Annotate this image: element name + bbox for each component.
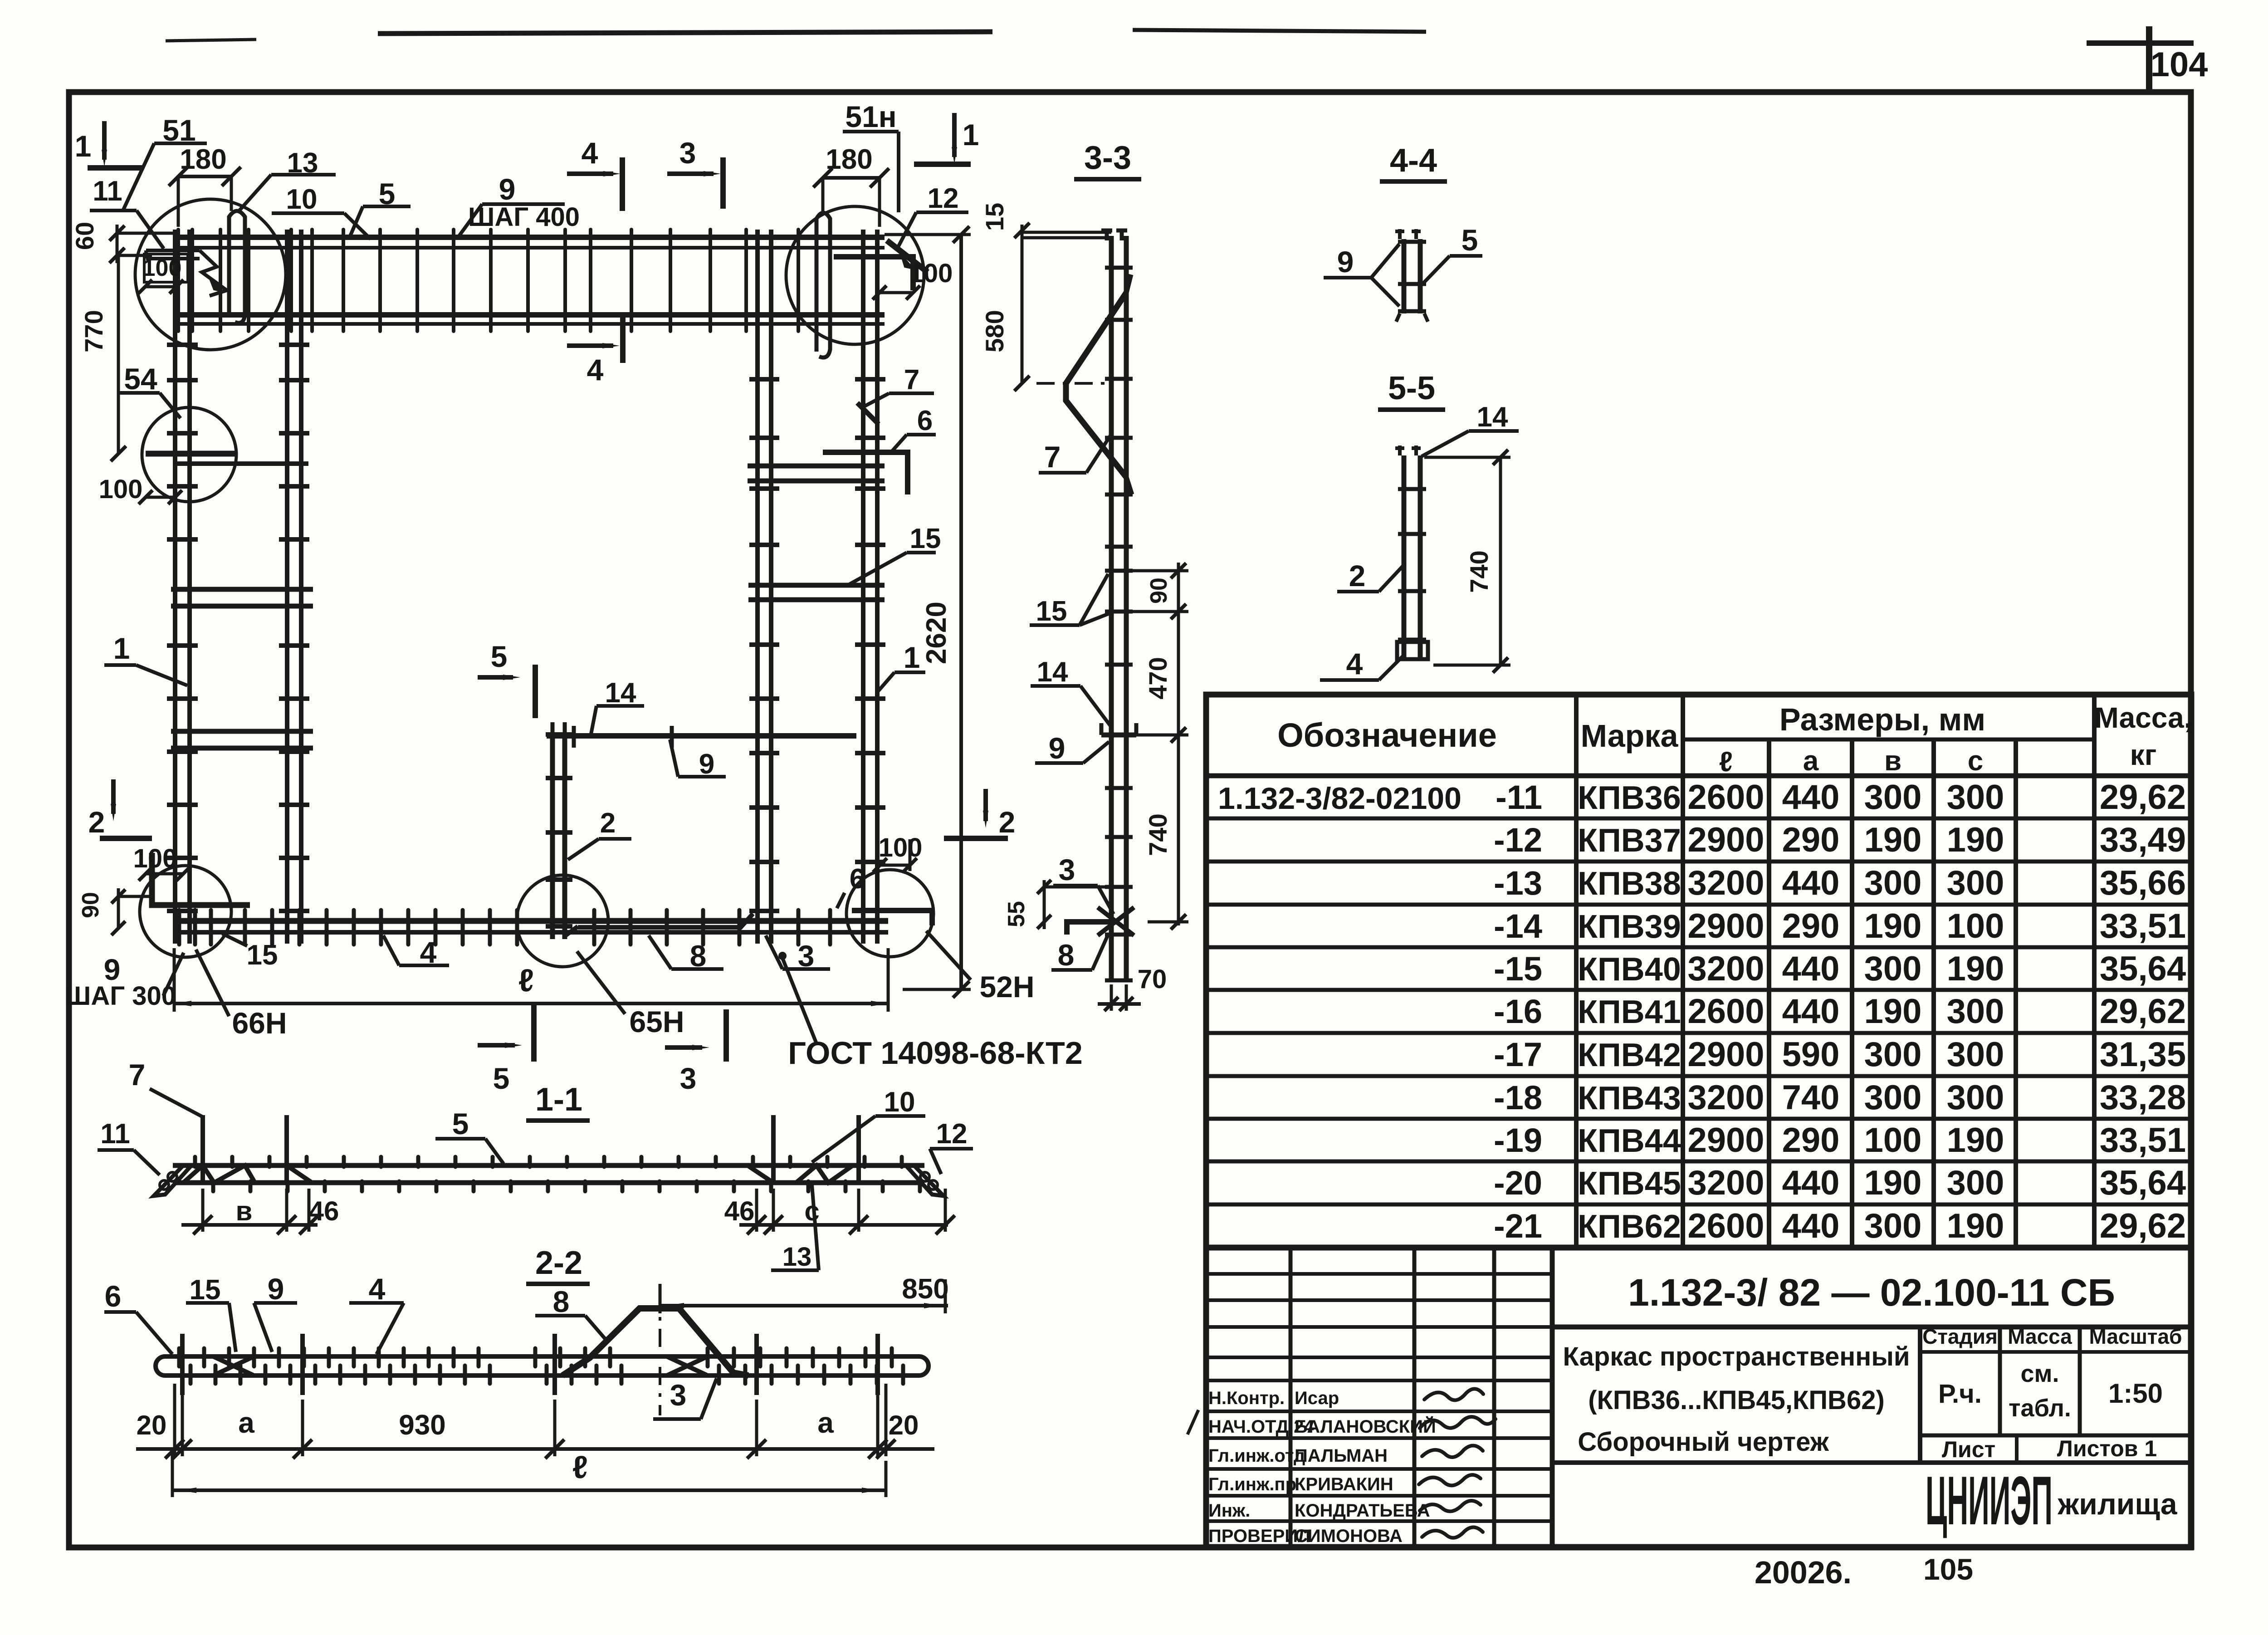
svg-text:КПВ39: КПВ39	[1578, 909, 1681, 945]
svg-text:2600: 2600	[1687, 992, 1764, 1031]
svg-text:1: 1	[113, 631, 130, 665]
svg-text:300: 300	[1864, 950, 1922, 988]
svg-text:8: 8	[1058, 938, 1075, 972]
svg-text:440: 440	[1782, 992, 1840, 1031]
top band chords (bars 5/9)	[176, 235, 885, 240]
svg-text:190: 190	[1947, 821, 2004, 859]
svg-text:2900: 2900	[1687, 821, 1764, 859]
svg-text:66Н: 66Н	[232, 1006, 287, 1040]
svg-text:КПВ38: КПВ38	[1578, 866, 1681, 902]
svg-text:5: 5	[1461, 223, 1478, 257]
title block outer frame	[1206, 1248, 2191, 1547]
detail circle 51 top-left	[135, 199, 286, 350]
svg-text:ℓ: ℓ	[1719, 746, 1733, 778]
svg-text:4: 4	[369, 1272, 386, 1306]
svg-text:2: 2	[600, 808, 616, 839]
section 1-1 brace triangles left	[183, 1165, 255, 1183]
svg-text:2: 2	[999, 805, 1016, 839]
svg-text:4: 4	[1346, 647, 1363, 680]
svg-text:Исар: Исар	[1295, 1388, 1339, 1408]
svg-text:Сборочный чертеж: Сборочный чертеж	[1578, 1427, 1829, 1457]
svg-text:31,35: 31,35	[2100, 1035, 2186, 1074]
svg-text:580: 580	[980, 310, 1009, 352]
pin bar 13 in circle 51	[229, 211, 245, 323]
svg-text:300: 300	[1864, 864, 1922, 902]
svg-text:Гл.инж.отд: Гл.инж.отд	[1208, 1446, 1305, 1466]
svg-text:ШАГ 400: ШАГ 400	[468, 202, 580, 232]
right column small zigzag 7	[857, 403, 879, 424]
right ladder chords (bar 1)	[755, 230, 760, 944]
section 3-3 rungs	[1105, 266, 1133, 270]
svg-text:1: 1	[904, 641, 920, 674]
svg-text:-16: -16	[1494, 993, 1542, 1030]
svg-text:Листов 1: Листов 1	[2057, 1436, 2157, 1461]
svg-text:Р.ч.: Р.ч.	[1938, 1379, 1982, 1409]
svg-text:4: 4	[582, 136, 598, 170]
svg-text:см.: см.	[2021, 1360, 2059, 1387]
svg-text:33,28: 33,28	[2100, 1078, 2186, 1117]
svg-text:-20: -20	[1494, 1164, 1542, 1202]
svg-text:35,66: 35,66	[2100, 864, 2186, 902]
svg-text:Инж.: Инж.	[1208, 1501, 1250, 1521]
svg-text:46: 46	[724, 1196, 755, 1226]
svg-text:14: 14	[1477, 401, 1508, 433]
detail circle 54 mid-left	[142, 407, 236, 502]
svg-text:20: 20	[137, 1410, 167, 1440]
svg-text:2: 2	[1349, 559, 1366, 592]
svg-text:740: 740	[1465, 550, 1493, 592]
section 1-1 cross ticks	[193, 1157, 197, 1167]
svg-text:-17: -17	[1494, 1036, 1542, 1073]
svg-text:КПВ37: КПВ37	[1578, 822, 1681, 859]
svg-text:-14: -14	[1494, 907, 1542, 945]
section 1-1 posts	[200, 1115, 205, 1185]
svg-text:(КПВ36...КПВ45,КПВ62): (КПВ36...КПВ45,КПВ62)	[1588, 1385, 1885, 1415]
right ladder long bars 15	[748, 464, 885, 469]
section 2-2 cross ticks	[177, 1348, 181, 1366]
svg-text:29,62: 29,62	[2100, 992, 2186, 1031]
svg-text:190: 190	[1947, 1207, 2004, 1245]
svg-text:1:50: 1:50	[2108, 1378, 2163, 1409]
svg-text:440: 440	[1782, 1207, 1840, 1245]
section 3-3 zigzag bar 7	[1066, 293, 1126, 477]
svg-text:2900: 2900	[1687, 907, 1764, 945]
svg-text:БАЛАНОВСКИЙ: БАЛАНОВСКИЙ	[1295, 1416, 1436, 1437]
svg-text:104: 104	[2151, 45, 2208, 84]
svg-text:ПАЛЬМАН: ПАЛЬМАН	[1295, 1446, 1388, 1466]
svg-text:9: 9	[268, 1272, 284, 1306]
svg-text:a: a	[238, 1406, 254, 1439]
svg-text:6: 6	[105, 1279, 122, 1313]
svg-text:770: 770	[79, 310, 108, 352]
table row lines	[1206, 817, 2191, 821]
svg-text:100: 100	[909, 259, 953, 288]
section 1-1 bar 5 body	[173, 1163, 924, 1168]
svg-text:КПВ40: КПВ40	[1578, 951, 1681, 988]
svg-text:10: 10	[884, 1087, 915, 1118]
weld flag 11 in circle 51	[146, 250, 200, 259]
stadiya massa masshtab header	[1918, 1327, 1922, 1463]
svg-text:5-5: 5-5	[1388, 370, 1435, 406]
section 2-2 trapezoid bar 8	[562, 1308, 748, 1376]
svg-text:-21: -21	[1494, 1207, 1542, 1245]
svg-text:2620: 2620	[921, 602, 952, 664]
detail circle 65Н bottom-middle	[517, 875, 608, 967]
svg-text:15: 15	[190, 1274, 221, 1306]
svg-text:51н: 51н	[845, 100, 896, 133]
svg-text:100: 100	[133, 844, 177, 873]
svg-text:-15: -15	[1494, 950, 1542, 988]
title block vertical dividers	[1550, 1248, 1555, 1547]
svg-text:190: 190	[1947, 950, 2004, 988]
svg-text:Масса: Масса	[2008, 1325, 2072, 1348]
svg-text:190: 190	[1864, 1164, 1922, 1202]
svg-text:440: 440	[1782, 1164, 1840, 1202]
svg-text:7: 7	[1044, 440, 1061, 474]
svg-text:ℓ: ℓ	[572, 1449, 588, 1485]
svg-text:2-2: 2-2	[535, 1245, 582, 1281]
svg-text:4: 4	[587, 353, 604, 387]
svg-text:54: 54	[124, 362, 157, 396]
svg-text:5: 5	[491, 640, 508, 673]
section 1-1 right weld flag 12	[906, 1165, 943, 1196]
svg-text:35,64: 35,64	[2100, 1164, 2186, 1202]
svg-text:15: 15	[980, 203, 1009, 231]
svg-text:14: 14	[1037, 656, 1068, 688]
svg-text:10: 10	[286, 184, 318, 215]
svg-text:-11: -11	[1496, 778, 1542, 816]
svg-text:740: 740	[1782, 1078, 1840, 1117]
bottom-left corner hook bar 66Н	[152, 853, 250, 905]
svg-text:850: 850	[902, 1273, 948, 1305]
svg-text:-19: -19	[1494, 1121, 1542, 1159]
svg-text:ℓ: ℓ	[518, 963, 534, 998]
detail circle 66Н bottom-left	[140, 866, 231, 957]
svg-text:КРИВАКИН: КРИВАКИН	[1295, 1474, 1393, 1494]
svg-text:3-3: 3-3	[1084, 140, 1131, 176]
svg-text:Масса,: Масса,	[2094, 701, 2192, 734]
svg-text:3200: 3200	[1687, 1164, 1764, 1202]
right hook bar 6 with 100 hook	[823, 452, 908, 494]
section 1-1 brace triangles right	[796, 1165, 853, 1183]
left ladder chords (bar 1)	[173, 230, 177, 944]
table frame	[1206, 695, 2191, 1248]
svg-text:12: 12	[928, 183, 959, 214]
page number 104 box	[2087, 40, 2194, 46]
svg-text:300: 300	[1864, 1207, 1922, 1245]
svg-text:740: 740	[1144, 813, 1172, 856]
svg-text:c: c	[1968, 745, 1983, 777]
pin bar in circle 51н	[816, 213, 830, 357]
svg-text:190: 190	[1864, 907, 1922, 945]
svg-text:3: 3	[670, 1378, 687, 1412]
svg-text:1: 1	[963, 118, 979, 152]
svg-text:3200: 3200	[1687, 950, 1764, 988]
svg-text:15: 15	[1036, 596, 1067, 627]
svg-text:ЦНИИЭП: ЦНИИЭП	[1926, 1462, 2053, 1539]
svg-text:65Н: 65Н	[629, 1005, 684, 1038]
svg-text:9: 9	[1337, 245, 1354, 279]
section 3-3 bottom hook bar 8 and cross	[1067, 922, 1118, 935]
svg-text:35,64: 35,64	[2100, 950, 2186, 988]
svg-text:1.132-3/ 82 — 02.100-11 СБ: 1.132-3/ 82 — 02.100-11 СБ	[1628, 1271, 2115, 1314]
detail circle 51н top-right	[786, 206, 924, 344]
svg-text:СИМОНОВА: СИМОНОВА	[1295, 1526, 1403, 1546]
top band ties шаг 400	[176, 230, 180, 331]
left ladder rungs	[167, 343, 198, 347]
signature grid horizontal lines	[1206, 1272, 1552, 1276]
svg-text:300: 300	[1864, 1035, 1922, 1074]
svg-text:1-1: 1-1	[535, 1082, 582, 1118]
svg-text:3: 3	[679, 136, 696, 170]
svg-text:190: 190	[1864, 992, 1922, 1031]
svg-text:11: 11	[100, 1118, 130, 1150]
svg-text:8: 8	[553, 1285, 570, 1318]
bottom band ties шаг 300	[177, 910, 181, 945]
svg-text:300: 300	[1947, 1078, 2004, 1117]
svg-text:290: 290	[1782, 1121, 1840, 1160]
stray slash mark	[1188, 1410, 1198, 1434]
svg-text:Стадия: Стадия	[1922, 1325, 1998, 1348]
svg-text:100: 100	[1947, 907, 2004, 945]
svg-text:1: 1	[75, 129, 92, 163]
svg-text:КОНДРАТЬЕВА: КОНДРАТЬЕВА	[1295, 1501, 1430, 1521]
svg-text:60: 60	[70, 222, 99, 250]
svg-text:20026.: 20026.	[1755, 1555, 1852, 1590]
svg-text:a: a	[817, 1406, 834, 1439]
svg-text:440: 440	[1782, 950, 1840, 988]
svg-text:2600: 2600	[1687, 778, 1764, 817]
section 5-5 ladder (bar 2)	[1402, 455, 1407, 661]
svg-text:930: 930	[399, 1410, 445, 1441]
svg-text:КПВ45: КПВ45	[1578, 1165, 1681, 1202]
svg-text:ШАГ 300: ШАГ 300	[64, 981, 176, 1011]
section 3-3 ladder chords	[1109, 236, 1114, 982]
svg-text:3: 3	[680, 1062, 697, 1095]
svg-text:90: 90	[1146, 578, 1172, 604]
svg-text:Лист: Лист	[1942, 1437, 1995, 1462]
svg-text:300: 300	[1947, 1035, 2004, 1074]
detail circle 52Н bottom-right	[846, 870, 934, 957]
section 5-5 bottom bar 4 box	[1397, 642, 1428, 659]
svg-text:3: 3	[1059, 853, 1075, 886]
svg-text:300: 300	[1947, 864, 2004, 902]
svg-text:300: 300	[1864, 778, 1922, 817]
svg-text:190: 190	[1947, 1121, 2004, 1160]
svg-text:a: a	[1803, 745, 1819, 777]
svg-text:2600: 2600	[1687, 1207, 1764, 1245]
svg-text:КПВ42: КПВ42	[1578, 1037, 1681, 1073]
svg-text:Обозначение: Обозначение	[1277, 716, 1497, 754]
bar 8 in bottom band	[578, 914, 753, 927]
section 2-2 bar body (tube)	[156, 1356, 929, 1376]
svg-text:100: 100	[1864, 1121, 1922, 1160]
svg-text:29,62: 29,62	[2100, 778, 2186, 817]
svg-text:2900: 2900	[1687, 1035, 1764, 1074]
section 2-2 X crosses	[213, 1356, 254, 1376]
svg-text:470: 470	[1144, 657, 1172, 699]
svg-text:55: 55	[1003, 901, 1030, 927]
svg-text:табл.: табл.	[2009, 1395, 2071, 1422]
svg-text:3200: 3200	[1687, 864, 1764, 902]
svg-text:9: 9	[499, 172, 516, 206]
svg-text:Н.Контр.: Н.Контр.	[1208, 1388, 1285, 1408]
svg-text:4-4: 4-4	[1390, 142, 1437, 179]
svg-text:6: 6	[917, 405, 933, 436]
svg-text:20: 20	[889, 1410, 919, 1440]
bar 14 top of stub	[547, 733, 856, 739]
svg-text:290: 290	[1782, 821, 1840, 859]
svg-text:в: в	[1884, 745, 1901, 777]
section 4-4 ladder	[1402, 239, 1407, 313]
svg-text:Гл.инж.пр: Гл.инж.пр	[1208, 1474, 1296, 1494]
svg-text:33,49: 33,49	[2100, 821, 2186, 859]
signature squiggles	[1424, 1389, 1483, 1400]
bottom-right hook bar 6	[852, 911, 932, 925]
svg-text:-18: -18	[1494, 1079, 1542, 1116]
svg-text:Марка: Марка	[1581, 718, 1679, 754]
svg-text:5: 5	[493, 1062, 510, 1095]
svg-text:300: 300	[1947, 778, 2004, 817]
svg-text:33,51: 33,51	[2100, 1121, 2186, 1160]
svg-text:7: 7	[904, 364, 919, 396]
svg-text:11: 11	[93, 176, 122, 207]
weld flag 12 and L-bar in circle 51н	[834, 257, 913, 290]
svg-text:1.132-3/82-02100: 1.132-3/82-02100	[1218, 781, 1461, 816]
svg-text:440: 440	[1782, 864, 1840, 902]
svg-text:3200: 3200	[1687, 1078, 1764, 1117]
svg-text:590: 590	[1782, 1035, 1840, 1074]
svg-text:90: 90	[78, 892, 104, 918]
right ladder rungs	[749, 377, 779, 382]
svg-text:300: 300	[1947, 992, 2004, 1031]
svg-text:440: 440	[1782, 778, 1840, 817]
svg-text:13: 13	[782, 1242, 812, 1272]
svg-text:жилища: жилища	[2057, 1487, 2177, 1521]
svg-text:КПВ41: КПВ41	[1578, 994, 1681, 1030]
svg-text:в: в	[236, 1196, 253, 1226]
middle stub column (bar 2)	[550, 733, 555, 939]
svg-text:190: 190	[1864, 821, 1922, 859]
bottom band chords (bars 4/8)	[174, 918, 888, 924]
svg-text:105: 105	[1923, 1552, 1973, 1586]
section 3-3 top hooks	[1101, 229, 1112, 240]
svg-text:70: 70	[1138, 964, 1167, 994]
table header lines	[1206, 773, 2191, 778]
svg-text:7: 7	[129, 1058, 146, 1092]
list / listov row	[1920, 1434, 2191, 1438]
left ladder long bars 15	[171, 587, 313, 592]
svg-text:кг: кг	[2130, 739, 2157, 771]
section 3-3 center dash-dot	[1036, 382, 1107, 385]
svg-text:300: 300	[1947, 1164, 2004, 1202]
svg-text:Размеры, мм: Размеры, мм	[1779, 702, 1985, 737]
svg-text:-12: -12	[1494, 821, 1542, 859]
svg-text:33,51: 33,51	[2100, 907, 2186, 945]
svg-text:6: 6	[850, 863, 865, 895]
svg-text:9: 9	[1049, 731, 1066, 765]
svg-text:5: 5	[452, 1107, 469, 1141]
svg-text:100: 100	[142, 255, 182, 281]
svg-text:Каркас пространственный: Каркас пространственный	[1563, 1342, 1910, 1371]
svg-text:52Н: 52Н	[979, 970, 1034, 1004]
section 2-2 posts	[180, 1334, 185, 1395]
section 2-2 center line	[659, 1291, 661, 1415]
svg-text:2: 2	[88, 805, 105, 839]
svg-text:КПВ62: КПВ62	[1578, 1209, 1681, 1245]
svg-text:15: 15	[247, 940, 278, 971]
mid-left hook bars	[146, 451, 238, 457]
svg-text:15: 15	[910, 523, 941, 554]
doc number cell 1.132-3/82-02.100-11 СБ	[1552, 1325, 2191, 1330]
svg-text:ГОСТ 14098-68-КТ2: ГОСТ 14098-68-КТ2	[788, 1035, 1083, 1071]
svg-text:14: 14	[605, 677, 636, 709]
svg-text:-13: -13	[1494, 864, 1542, 902]
section 3-3 bar 9 wide rung with hooks	[1101, 733, 1136, 738]
svg-text:КПВ36: КПВ36	[1578, 780, 1681, 816]
svg-text:12: 12	[936, 1118, 968, 1150]
svg-text:КПВ44: КПВ44	[1578, 1123, 1681, 1159]
svg-text:290: 290	[1782, 907, 1840, 945]
svg-text:КПВ43: КПВ43	[1578, 1080, 1681, 1116]
svg-text:29,62: 29,62	[2100, 1207, 2186, 1245]
svg-text:100: 100	[99, 475, 143, 504]
svg-text:2900: 2900	[1687, 1121, 1764, 1160]
svg-text:Масштаб: Масштаб	[2089, 1325, 2182, 1348]
svg-text:300: 300	[1864, 1078, 1922, 1117]
scan smudge top line	[378, 32, 992, 34]
section 1-1 left weld flag 11	[154, 1165, 191, 1196]
